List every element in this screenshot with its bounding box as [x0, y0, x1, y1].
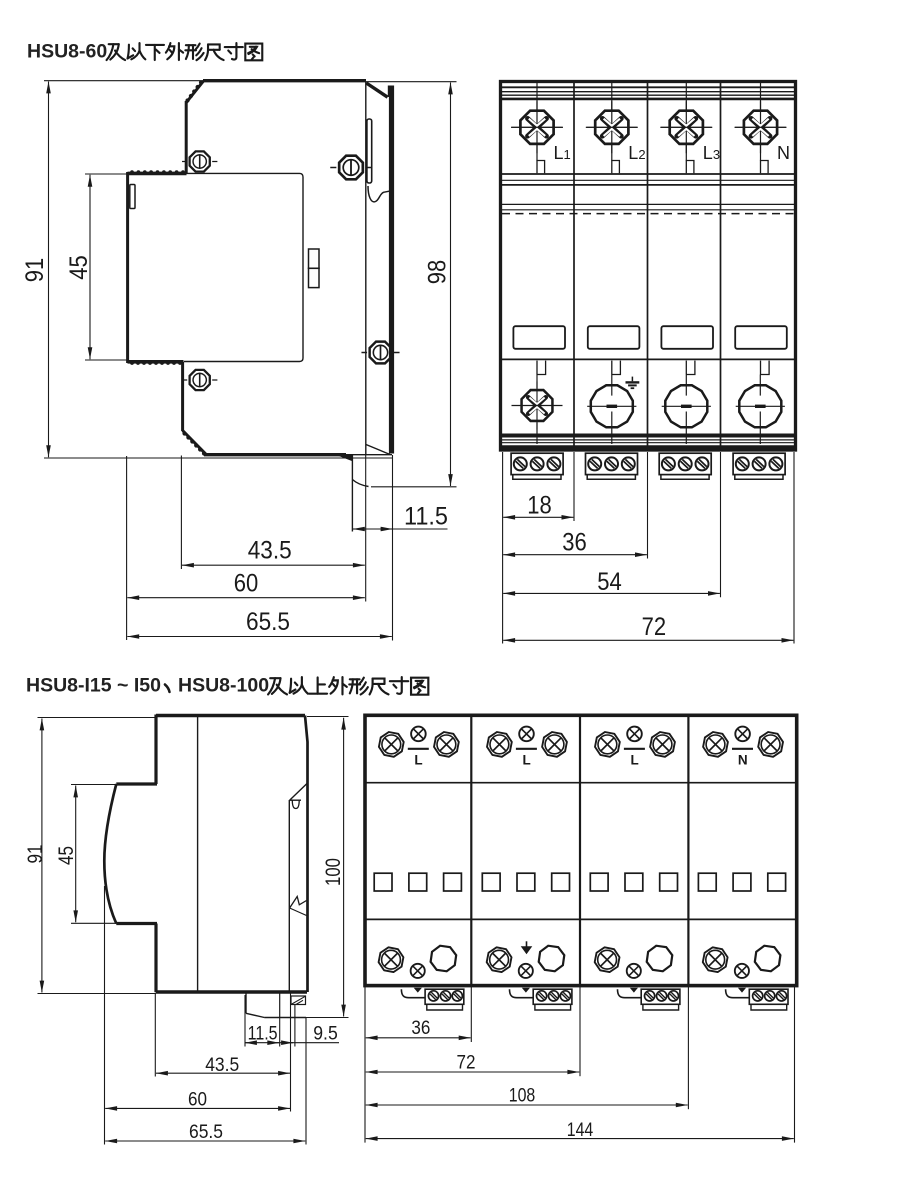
svg-text:72: 72	[642, 613, 667, 641]
top screws module 4	[702, 731, 729, 758]
label window module 4	[735, 326, 787, 349]
body outline	[501, 82, 796, 451]
bottom-right notch	[366, 445, 390, 455]
terminal block module 3	[659, 453, 711, 479]
dimension 144 (lower)	[366, 1138, 794, 1140]
extension line 43.5 left	[180, 456, 182, 570]
extension line left bulge	[104, 886, 106, 1145]
svg-text:L: L	[414, 753, 422, 768]
svg-text:HSU8-60: HSU8-60	[27, 41, 107, 63]
svg-text:HSU8-I15 ~ I50: HSU8-I15 ~ I50	[26, 675, 161, 697]
clip release wedge	[290, 897, 307, 909]
module block bottom serrated edge	[128, 360, 184, 364]
small bottom wedge	[339, 456, 352, 461]
svg-text:L: L	[522, 753, 530, 768]
svg-text:65.5: 65.5	[189, 1121, 223, 1143]
dimension 65.5	[127, 636, 392, 638]
extension line 100 top	[307, 716, 349, 718]
dashed cover line	[502, 213, 794, 215]
housing bottom surface	[156, 990, 307, 993]
extension line 91 top	[38, 717, 157, 719]
side view: HSU8-100 housing profile	[24, 715, 349, 1145]
label windows module 4	[698, 873, 716, 891]
extension line 45 top	[71, 784, 117, 786]
dimension 98	[450, 83, 452, 487]
svg-text:9.5: 9.5	[313, 1023, 338, 1045]
extension line divider 3 (lower)	[687, 987, 689, 1109]
extension line body right (lower)	[794, 987, 796, 1143]
dimension 36 (lower)	[366, 1037, 471, 1039]
extension line rail foot	[365, 455, 367, 602]
module divider 1	[470, 715, 472, 985]
housing bottom surface	[204, 453, 346, 456]
mounting foot slant	[246, 1013, 264, 1017]
right wall	[305, 716, 308, 993]
earth arrow symbol	[526, 941, 528, 947]
svg-text:60: 60	[234, 570, 259, 598]
extension line body right	[793, 452, 795, 644]
top screws module 3	[594, 731, 621, 758]
extension line body left (lower)	[364, 987, 366, 1143]
phase bar and label L	[624, 748, 645, 750]
top wire clamp notch module 3	[686, 161, 694, 174]
top screw module 2	[586, 101, 638, 153]
svg-text:72: 72	[457, 1051, 476, 1073]
dimension 43.5	[182, 564, 365, 566]
svg-text:144: 144	[567, 1119, 594, 1141]
terminal block module 4	[733, 453, 785, 479]
svg-text:108: 108	[509, 1085, 536, 1107]
dimension 54	[503, 592, 720, 594]
title: HSU8-60 and below outline dimension drawing	[27, 41, 262, 63]
bottom screw module 4	[739, 385, 781, 427]
rail clip inner line	[288, 800, 290, 991]
svg-text:11.5: 11.5	[248, 1023, 278, 1045]
extension line foot step	[279, 1018, 281, 1047]
svg-text:91: 91	[21, 258, 49, 283]
dimension 11.5	[353, 528, 448, 530]
svg-text:43.5: 43.5	[205, 1054, 239, 1076]
rail foot curve	[352, 480, 368, 487]
dimension 60 (lower)	[105, 1107, 290, 1109]
extension line divider 2 (lower)	[579, 987, 581, 1076]
svg-text:98: 98	[424, 260, 452, 285]
inner face line	[197, 716, 199, 993]
front view: HSU8-60 four module assembly	[501, 82, 796, 644]
extension line 45 top	[85, 173, 128, 175]
rail clip slot	[367, 119, 372, 183]
svg-text:18: 18	[527, 492, 552, 520]
svg-text:36: 36	[562, 529, 587, 557]
label window module 1	[513, 326, 565, 349]
terminal wire hook module 4	[726, 989, 750, 998]
mounting foot left	[245, 993, 247, 1014]
serrated top-left edge	[186, 81, 203, 103]
svg-text:91: 91	[24, 845, 47, 864]
svg-text:11.5: 11.5	[404, 503, 448, 531]
top wire clamp notch module 4	[761, 161, 769, 174]
bottom screws module 1	[377, 946, 404, 973]
svg-text:N: N	[738, 753, 748, 768]
svg-text:54: 54	[597, 568, 622, 596]
bottom wire clamp notch module 1	[536, 361, 538, 375]
dimension 43.5 (lower)	[156, 1072, 290, 1074]
rail foot left line	[351, 455, 353, 532]
housing top surface	[203, 79, 366, 82]
mounting foot bottom	[264, 1017, 306, 1019]
bottom screws module 2	[485, 946, 512, 973]
terminal block module 3	[641, 989, 680, 1004]
upper step	[116, 782, 157, 785]
svg-text:43.5: 43.5	[248, 537, 292, 565]
top screw module 1	[511, 101, 563, 153]
left bulge profile	[104, 784, 116, 924]
extension line clip	[290, 993, 292, 1112]
top wire clamp notch module 2	[612, 161, 620, 174]
extension line 91 bottom	[38, 993, 157, 995]
bottom screw module 3	[665, 385, 707, 427]
dimension 45	[89, 175, 91, 359]
svg-text:65.5: 65.5	[246, 608, 290, 636]
label window module 2	[588, 326, 640, 349]
upper-left vertical wall	[185, 101, 188, 173]
bottom screws module 4	[701, 946, 728, 973]
extension line divider 3	[720, 452, 722, 597]
svg-text:45: 45	[65, 255, 93, 280]
bottom wire clamp notch module 2	[611, 361, 613, 375]
top wire clamp notch module 1	[537, 161, 545, 174]
earth symbol	[631, 377, 633, 382]
left clip slot detail	[130, 185, 135, 209]
svg-text:36: 36	[411, 1017, 430, 1039]
label window separator	[502, 358, 794, 360]
module block face outline	[184, 173, 303, 361]
front view: HSU8-100 four module assembly	[365, 715, 797, 1142]
terminal block module 2	[586, 453, 638, 479]
extension line 45 bottom	[85, 359, 128, 361]
label windows module 3	[590, 873, 608, 891]
label windows module 1	[374, 873, 392, 891]
phase bar and label L	[408, 748, 429, 750]
terminal block module 4	[749, 989, 788, 1004]
dimension 91 (lower)	[41, 719, 43, 993]
dimension 11.5 (lower)	[245, 1042, 339, 1044]
inner face line	[365, 82, 367, 455]
clip foot detail	[291, 996, 306, 1005]
bottom screw module 1	[513, 381, 561, 429]
module divider 3	[687, 715, 689, 985]
extension line divider 2	[647, 452, 649, 559]
dimension 91	[48, 82, 50, 458]
dimension 60	[127, 597, 364, 599]
top-left vertical wall	[154, 715, 157, 785]
top screws module 1	[378, 731, 405, 758]
lower mounting screw	[182, 370, 217, 390]
title: HSU8-I15~I50, HSU8-100 and above outline dimension drawing	[26, 675, 428, 697]
extension line 45 bottom	[71, 922, 117, 924]
extension line foot left	[244, 995, 246, 1047]
module divider 2	[579, 715, 581, 985]
dimension 18	[503, 516, 573, 518]
svg-text:N: N	[777, 143, 790, 163]
module divider 3	[720, 82, 722, 450]
svg-text:HSU8-100: HSU8-100	[178, 675, 269, 697]
extension line right edge	[392, 455, 394, 641]
top screws module 2	[486, 731, 513, 758]
svg-text:45: 45	[55, 846, 78, 865]
latch detail rectangles	[309, 249, 320, 268]
terminal block module 1	[511, 453, 563, 479]
extension line 100 bottom	[306, 1017, 349, 1019]
bottom row separator	[366, 918, 795, 920]
terminal block module 2	[533, 989, 572, 1004]
top screw module 3	[660, 101, 712, 153]
bottom screw module 2	[591, 385, 633, 427]
extension line right edge	[305, 1018, 307, 1145]
module block left wall	[126, 172, 129, 363]
DIN rail bar	[389, 86, 394, 454]
dimension 108 (lower)	[366, 1104, 688, 1106]
terminal block module 1	[425, 989, 464, 1004]
dimension 72	[503, 639, 793, 641]
lower-left vertical wall	[154, 924, 157, 993]
extension line 91 bottom	[44, 457, 393, 459]
bottom band lines	[502, 434, 794, 438]
housing top surface	[156, 714, 305, 717]
svg-text:100: 100	[322, 858, 345, 886]
body outline	[365, 715, 797, 985]
extension line 98 bottom	[371, 486, 457, 488]
top band lines	[502, 86, 794, 88]
phase bar and label L	[516, 748, 537, 750]
upper mounting screw	[182, 151, 217, 171]
label window module 3	[661, 326, 713, 349]
rail screw upper	[330, 156, 371, 180]
lower step	[116, 922, 157, 925]
terminal wire hook module 1	[401, 989, 425, 998]
phase bar and label N	[732, 748, 753, 750]
mounting foot inner line	[279, 993, 281, 1018]
extension line 91 top	[44, 80, 203, 82]
clip release lever	[368, 186, 391, 202]
top row separator	[366, 782, 795, 784]
extension line body left	[502, 452, 504, 644]
dimension 65.5 (lower)	[105, 1140, 305, 1142]
side view: HSU8-60 housing profile	[21, 80, 457, 640]
extension line left block	[126, 456, 128, 640]
top screw module 4	[735, 101, 787, 153]
upper terminal zone lines	[502, 173, 794, 175]
module block top serrated edge	[128, 172, 187, 176]
dimension 45 (lower)	[75, 786, 77, 923]
dimension 100	[343, 718, 345, 1017]
extension line divider 1 (lower)	[470, 987, 472, 1042]
label windows module 2	[482, 873, 500, 891]
terminal wire hook module 2	[510, 989, 534, 998]
bottom screws module 3	[593, 946, 620, 973]
dimension 36	[503, 554, 647, 556]
module divider 2	[647, 82, 649, 450]
svg-text:L: L	[630, 753, 638, 768]
lower-left vertical wall	[181, 362, 184, 431]
serrated lower-left diagonal	[183, 431, 207, 455]
top clip hook	[366, 83, 387, 97]
bottom wire clamp notch module 4	[760, 361, 762, 375]
dimension 72 (lower)	[366, 1071, 580, 1073]
module divider 1	[573, 82, 575, 450]
extension line 43.5 left	[154, 993, 156, 1077]
rail screw lower	[361, 342, 399, 364]
clip top hook	[290, 784, 307, 801]
terminal wire hook module 3	[618, 989, 642, 998]
svg-text:60: 60	[188, 1089, 207, 1111]
bottom wire clamp notch module 3	[685, 361, 687, 375]
extension line divider 1	[573, 452, 575, 521]
